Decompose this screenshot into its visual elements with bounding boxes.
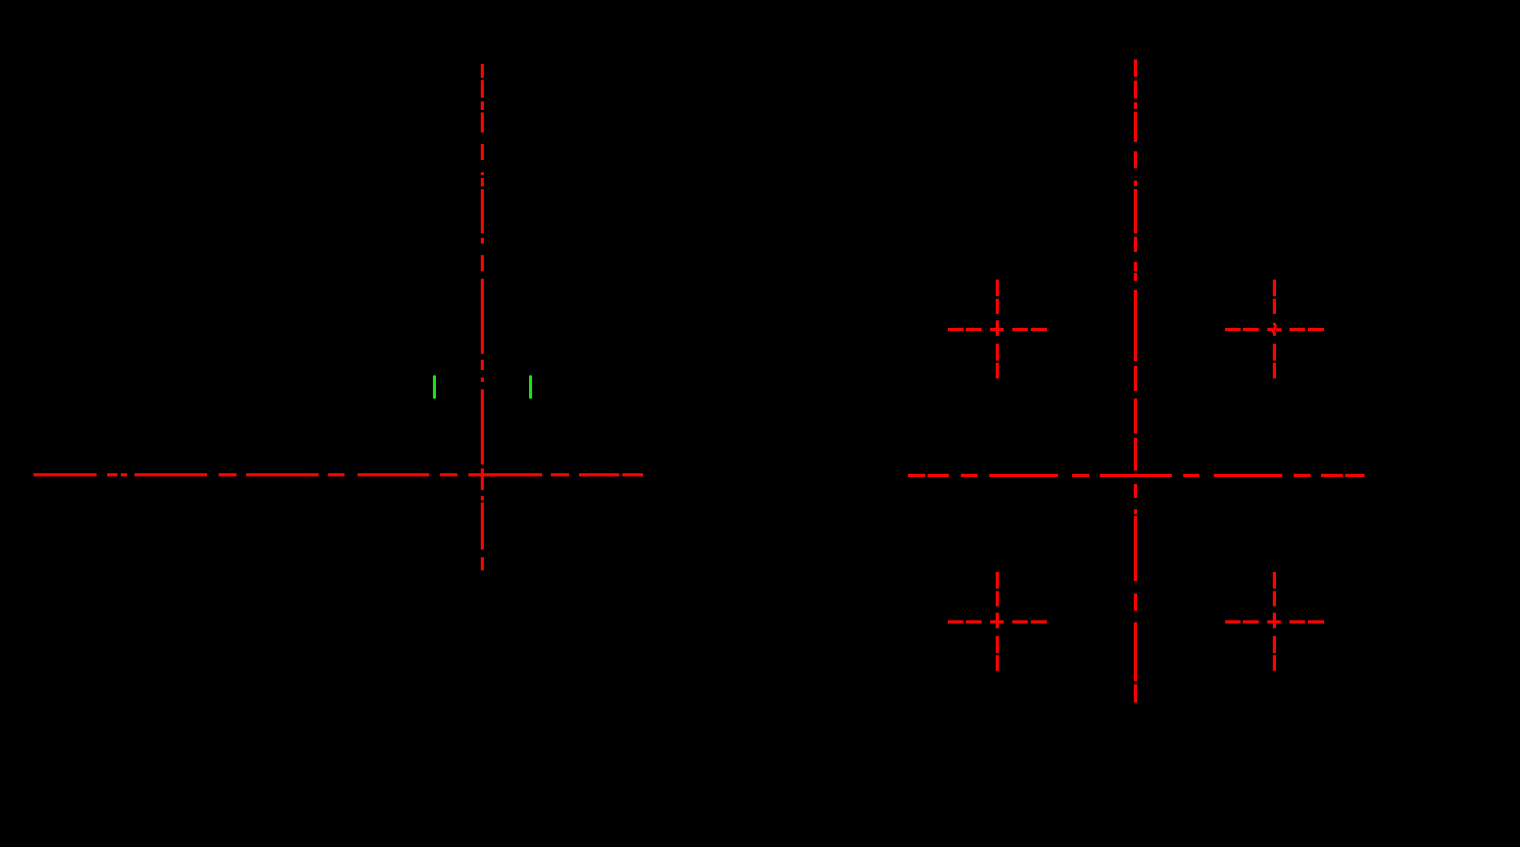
left view green edge tick left	[433, 375, 436, 399]
right view horizontal centerline (dash-dot, red)	[908, 474, 1365, 477]
hole center mark bottom-right (cross)	[1225, 572, 1324, 671]
left view vertical centerline (dash-dot, red)	[481, 64, 484, 570]
right view vertical centerline (dash-dot, red)	[1134, 59, 1137, 702]
left view horizontal centerline (dash-dot, red)	[33, 473, 643, 476]
hole center mark top-left (cross)	[948, 280, 1047, 379]
hole center mark top-right (cross with slash)	[1225, 280, 1324, 379]
hole center mark bottom-left (cross)	[948, 572, 1047, 671]
left view green edge tick right	[529, 375, 532, 399]
